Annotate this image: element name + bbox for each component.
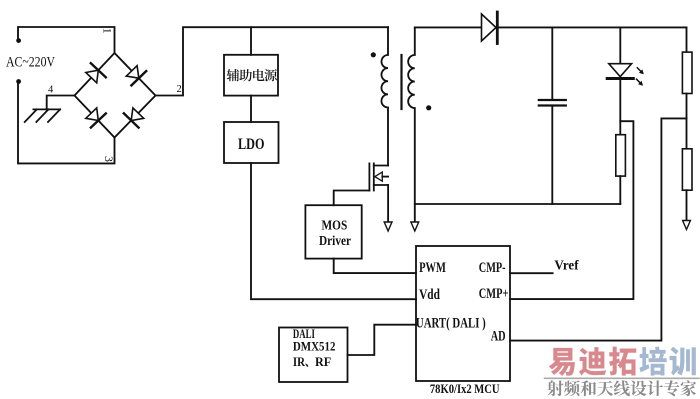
LED D6 bbox=[619, 27, 621, 63]
wire aux to LDO bbox=[250, 96, 252, 122]
wire LED to R2 bbox=[619, 80, 621, 135]
svg-text:UART( DALI ): UART( DALI ) bbox=[416, 316, 486, 332]
wire DALI to UART bbox=[348, 325, 417, 355]
wire rail corner down bbox=[686, 27, 688, 52]
resistor R2 bbox=[616, 135, 626, 176]
ground arrow (secondary return) bbox=[411, 222, 419, 231]
box U5 DALI/DMX512/IR RF bbox=[279, 328, 348, 383]
svg-text:Driver: Driver bbox=[319, 233, 351, 248]
diode D4 (bottom-right edge) bbox=[131, 108, 144, 121]
resistor R3 bbox=[682, 149, 692, 190]
svg-text:DMX512: DMX512 bbox=[293, 340, 336, 354]
wire R1 to R3 bbox=[686, 94, 688, 149]
wire MOS Driver to PWM bbox=[334, 259, 416, 274]
ground arrow (divider) bbox=[683, 221, 691, 230]
svg-text:1: 1 bbox=[101, 28, 115, 34]
primary dot bbox=[371, 52, 376, 57]
svg-text:PWM: PWM bbox=[419, 260, 446, 276]
ground arrow (MOSFET source) bbox=[384, 222, 392, 231]
svg-text:AD: AD bbox=[491, 328, 506, 344]
wire LDO down to Vdd rail bbox=[251, 163, 416, 299]
svg-text:Vdd: Vdd bbox=[419, 287, 440, 303]
secondary dot bbox=[426, 105, 431, 110]
box U1 MCU bbox=[416, 246, 510, 381]
box U2 auxiliary power 辅助电源 bbox=[224, 55, 278, 96]
box U3 LDO bbox=[224, 122, 279, 163]
svg-text:AC~220V: AC~220V bbox=[6, 55, 55, 71]
bridge rectifier edges bbox=[75, 53, 156, 138]
wire node2 up to top rail bbox=[156, 27, 389, 95]
svg-text:LDO: LDO bbox=[238, 136, 265, 153]
resistor R1 bbox=[682, 52, 692, 93]
svg-text:78K0/Ix2 MCU: 78K0/Ix2 MCU bbox=[430, 381, 500, 396]
node: AC terminal bottom dot bbox=[16, 79, 21, 84]
svg-text:IR: IR bbox=[293, 355, 306, 369]
svg-text:CMP-: CMP- bbox=[479, 260, 506, 276]
capacitor C1 bbox=[551, 27, 553, 99]
wire node4 to earth bbox=[47, 96, 75, 110]
svg-text:CMP+: CMP+ bbox=[479, 286, 509, 302]
wire: AC top rail left bbox=[18, 27, 115, 53]
node: AC terminal top dot bbox=[16, 38, 21, 43]
svg-text:Vref: Vref bbox=[554, 258, 579, 273]
transformer core bbox=[400, 55, 402, 109]
wire LED junction to CMP+ riser bbox=[510, 121, 633, 299]
watermark tagline 射频和天线设计专家 bbox=[547, 380, 563, 396]
svg-text:3: 3 bbox=[102, 156, 116, 162]
svg-text:RF: RF bbox=[315, 355, 332, 369]
wire: AC left down + bottom to bridge bbox=[18, 82, 115, 164]
wire CMP- to Vref bbox=[510, 272, 553, 274]
wire source down bbox=[387, 185, 389, 222]
watermark divider bbox=[545, 377, 699, 379]
wire bottom rail bbox=[415, 203, 621, 205]
box U4 MOS Driver bbox=[305, 205, 361, 258]
transformer primary winding bbox=[381, 27, 388, 165]
diode D3 (bottom-left edge) bbox=[86, 108, 99, 121]
svg-text:2: 2 bbox=[177, 84, 182, 95]
wire gate to MOS Driver bbox=[334, 191, 370, 206]
watermark logo 易迪拓培训 bbox=[549, 348, 575, 376]
earth ground symbol bbox=[33, 108, 60, 110]
svg-text:4: 4 bbox=[48, 84, 54, 95]
transistor Q1 N-MOSFET bbox=[368, 163, 370, 190]
diode D5 output rectifier bbox=[482, 14, 497, 41]
svg-text:MOS: MOS bbox=[322, 218, 348, 233]
diode D1 (top-left edge) bbox=[86, 70, 99, 83]
wire divider junction to AD riser bbox=[510, 118, 687, 340]
diode D2 (top-right edge) bbox=[126, 66, 139, 79]
wire R2 to bottom rail bbox=[619, 176, 621, 204]
wire top rail to aux box bbox=[250, 27, 252, 55]
LED emission arrows bbox=[637, 68, 643, 85]
transformer secondary winding bbox=[408, 27, 415, 221]
wire R3 down bbox=[686, 190, 688, 220]
wire output top rail bbox=[415, 26, 687, 28]
